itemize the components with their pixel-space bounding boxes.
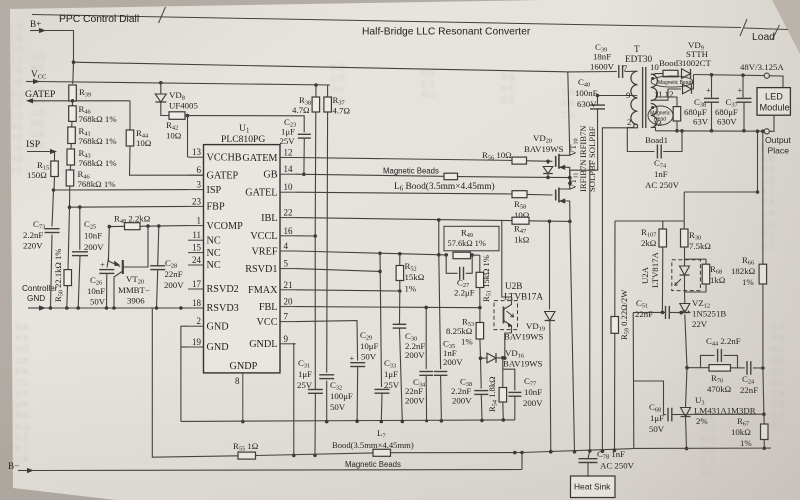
node R42 right [186,114,190,118]
node snubber rail [675,129,679,133]
wire divider to R67 [763,368,764,414]
node R59 rail [613,449,617,453]
resistor R38 [312,97,320,112]
wire C25 lower [78,256,80,308]
wire ref line [672,413,764,415]
wire IBL line [296,218,513,221]
node C73 rail [49,306,53,310]
resistor R49 label box [444,226,499,251]
resistor R55 [238,452,256,459]
resistor R51 [479,255,481,272]
capacitor C33 [375,388,390,390]
node VT20 collector rail [112,306,116,310]
wire C40 upper [597,96,599,105]
node GATEP/R39 [71,99,75,103]
capacitor C25 [72,251,88,253]
node C74 rail [680,129,684,133]
node VT11 source IBL [568,220,572,224]
capacitor C29 [350,362,365,364]
wire pin12 to VD9 lower [651,89,681,100]
wire bottom-right rail [634,447,771,449]
wire B+ to rail corner [43,31,74,63]
wire B- line [30,470,522,471]
inductor L7 [373,449,391,456]
inductor Bood3 [663,70,678,77]
capacitor C24 [746,361,748,375]
node B+ rail junction [72,60,76,64]
wire R107/R30 feed line [684,191,757,193]
wire C32 to gnd bus [326,381,328,422]
wire C26 lower [106,274,108,309]
node C30 bus [401,420,405,424]
wire C34 to bus [440,376,443,421]
node VD19 rail [549,450,553,454]
wire R38 upper [315,85,317,97]
wire R50 net upper [68,207,70,269]
wire R70 to C24 [731,367,745,369]
ruler tick load-left [740,19,747,36]
transistor VT20 emitter [109,258,121,267]
resistor R48 [125,223,141,230]
node R49 left [444,253,448,257]
capacitor C73 [45,228,60,230]
resistor R70 [687,367,709,369]
transformer T core [642,67,644,128]
wire R52 upper [399,254,401,266]
resistor R56 [512,157,527,164]
capacitor C32 [319,374,334,376]
wire GNDL drop [294,344,296,456]
capacitor C31 [308,389,323,391]
wire FBP line [70,205,189,208]
node RSVD1 C33 [378,270,382,274]
wire Vcc line [26,81,37,83]
wire gnd bus [181,420,515,422]
winding polarity dot upper [651,77,654,80]
wire C31 to R55 line [314,393,316,455]
wire VT10 source to node [569,172,571,184]
wire ISP corner to R15 [54,152,56,162]
IC U1 PLC810PG body [204,145,281,373]
wire output+ to LED module [769,76,783,88]
zener VZ12 [680,304,690,313]
node C37 out [741,73,745,77]
wire C38 sense to bus [480,395,483,421]
capacitor C38 output [711,75,713,98]
wire GATEL line [296,192,513,194]
wire Vcc end to R37 [328,85,330,97]
wire VD8 to R42 [161,102,169,116]
capacitor C27 loop [446,255,457,273]
node VD19 net rail [549,450,553,454]
wire VD9 join [692,75,694,90]
wire snubber to out- rail [676,121,678,131]
node C34 bus [440,419,444,423]
node ref line right [762,412,766,416]
capacitor C37 output [742,75,744,98]
wire stack to FBP [69,186,71,207]
oval magnetic beads annotation [651,76,693,87]
wire C29 to bus [356,367,359,422]
node IBL sense tap [437,218,441,222]
node C26 rail [105,306,109,310]
wire fb tap2 to R66 [762,131,764,264]
resistor R47 [512,217,529,224]
node VCOMP left [108,225,112,229]
wire VT11 drain [569,184,571,186]
wire R59 to rail [614,333,616,450]
node VREF IBL-drop tap [437,253,441,257]
wire pin2 return [602,125,637,452]
wire FBL line [296,307,481,308]
diode VD9 upper [682,69,691,79]
transistor VT20 base lead [123,226,148,267]
node C33 bus [380,420,384,424]
wire controller gnd rail [28,307,43,309]
wire R107 bottom [661,247,663,312]
resistor R53 [479,308,481,323]
node R49 right [470,253,474,257]
node GNDP bus [241,420,245,424]
wire R41-R43 [70,144,72,150]
node VD20 gate [546,160,550,164]
wire C28 lower [157,270,158,308]
wire R52 lower [399,281,401,292]
diode VD8 [155,94,166,102]
wire ISP arrow [27,151,54,153]
wire C51 left rail [632,313,635,449]
node C38 bus [480,419,484,423]
wire R46a-R41 [71,121,73,127]
capacitor C74 [656,145,658,159]
section ruler line [32,15,741,28]
oval magnetic head annotation [648,106,673,125]
wire C78 net upper [589,160,591,451]
capacitor C23 [298,133,311,135]
node C38 out [710,73,714,77]
node VD16 left [479,356,483,360]
wire rail to fb area [522,449,634,453]
transformer secondary winding upper [651,74,658,100]
ruler tick left [159,7,166,23]
resistor R41 [68,127,76,144]
capacitor C40 [590,104,605,106]
wire C35 to bus [425,376,427,421]
transformer secondary winding lower [651,104,657,128]
node C77 end [513,451,517,455]
node VCOMP base [146,224,150,228]
wire IBL drop [438,220,440,255]
resistor R107 [662,221,664,229]
resistor R39 [69,85,77,101]
wire VCCL stub [296,235,316,237]
wire FMAX line [296,290,400,291]
wire C26 emitter drop [108,227,111,258]
wire VD16 to R54 node [496,357,503,359]
wire feed drop [683,192,685,221]
wire C25 upper [79,207,81,250]
wire U2B collector up [511,297,513,301]
wire VREF line [296,251,447,255]
wire pin10 to Bood3 [651,73,663,76]
wire R43-R46b [69,165,71,170]
wire C35 drop [425,307,427,369]
node VD19 top IBL [548,220,552,224]
resistor R52 [396,266,404,281]
node pin2 rail [601,449,605,453]
node Vcc VD8 [159,81,163,85]
capacitor C34 [439,255,441,369]
wire pin13 down [651,128,656,131]
resistor R50 [64,270,72,286]
wire R66 to divider node [762,284,764,368]
resistor R54 [502,358,504,388]
capacitor C44 loop [701,355,715,367]
wire GATEP line [33,100,130,102]
wire C30 drop [399,291,401,324]
wire C33 to bus [380,393,383,421]
node out- fb taps [756,129,760,133]
resistor R43 [67,149,75,165]
wire GATEM line [296,158,513,161]
node VT11 net rail [573,450,577,454]
wire C74 left [627,128,654,152]
wire C23 to GB line [303,138,305,174]
wire C40 lower to switch node [570,109,598,170]
heat sink box [571,476,616,498]
wire GATEP arrow [29,100,36,102]
wire VD8 upper [160,83,162,94]
wire C74 right [663,131,682,152]
ruler load segment [744,28,788,30]
node C28 rail [155,306,159,310]
resistor R15 [51,161,59,177]
wire U2B emitter down [511,330,513,333]
node VCCL R38 [313,234,317,238]
wire R107/R30 top line [615,220,684,222]
node VCOMP C28 [157,224,161,228]
wire VREF line right [472,254,480,256]
wire R50 to rail [66,286,69,308]
wire B- riser [521,453,523,470]
terminal output- circle [764,129,769,134]
wire GB line [296,174,445,176]
node C31 R55-line [313,454,317,458]
node R54 bus [502,418,506,422]
wire R55 line mid [256,453,374,456]
node VREF C33 tap [378,252,382,256]
wire C78 to heat sink [587,463,589,476]
node U3 rail [685,447,689,451]
resistor R44 [126,130,134,146]
inductor magnetic beads (GB line) [444,173,458,180]
node GNDL R55-line [292,454,296,458]
node FBL R53 [478,306,482,310]
transistor VT10 symbol [555,156,557,167]
resistor R66 [759,264,767,284]
node FMAX R52 [398,289,402,293]
capacitor C26 [99,269,114,271]
resistor snubber (11-12 tap) [657,97,677,107]
capacitor C77 loop [503,369,515,390]
wire VT11 source down [569,206,571,221]
node C29 bus [355,419,359,423]
capacitor C35 [419,371,433,373]
wire R47 to VT11 source node [529,220,570,223]
wire R38 down to VCCL [314,112,317,236]
resistor R42 [169,112,185,120]
resistor R59 line upper [614,221,616,317]
node ISP/C73 [52,188,56,192]
resistor R46 (b) [66,170,74,186]
node C40 rail [596,94,600,98]
wire C26 upper [107,258,109,268]
resistor R30 [683,221,685,229]
wire C73 upper [52,190,54,227]
node divider (R66/R67/C24) [761,366,765,370]
capacitor C30 [393,323,407,325]
resistor R58 [512,191,527,198]
node fb tap1 bottom [756,190,760,194]
transformer primary winding [631,71,638,124]
wire R51 to FBL [479,288,481,308]
wire VCC line [296,321,358,361]
wire beads to switch node [458,177,570,178]
wire VCCL to C31 [314,236,316,389]
wire ISP pin3 line [54,189,189,191]
wire B- arrow [18,470,31,472]
node VZ12 C51 [679,311,683,315]
wire C24 to divider [753,367,763,369]
node C23 GB [302,173,306,177]
wire R56 to VT10 gate [527,160,553,163]
resistor R46 (a) [71,101,73,106]
wire LED cathode to VZ12 [684,291,686,304]
wire C68 right [674,414,680,416]
wire RSVD1 line [296,269,381,272]
optocoupler U2A dashed box [672,260,701,291]
diode VD9 lower [683,84,692,94]
node R70 line left [685,366,689,370]
node Vcc R38 [314,83,318,87]
optocoupler U2B transistor [503,307,505,324]
node C25 FBP [78,205,82,209]
ruler tick load-right [773,25,780,39]
resistor R59 [611,317,619,334]
wire R53 to VD16 line [479,339,482,358]
wire C68 left riser [634,381,666,415]
wire pin9 line [598,95,634,97]
node switch node C40 [568,182,572,186]
LED Module box [757,88,790,116]
node C38 out- [710,129,714,133]
node R67 rail [763,446,767,450]
wire R37 down to C32 [326,112,329,373]
wire B+ drop to Vcc/R39 [72,62,75,84]
wire R67 to rail [763,440,765,449]
node FBP tee [68,205,72,209]
node VREF R52 tap [398,252,402,256]
node VD20 GB [546,176,550,180]
wire GND pins vertical [181,326,188,421]
diode VD16 [481,357,487,359]
node switch node GB [568,176,572,180]
node C78 rail [588,449,592,453]
transistor VT20 collector [114,271,123,308]
wire R42 to pin13 [187,116,189,158]
node FBL C35 [424,306,428,310]
wire R44 to pin6 [130,146,204,175]
terminal output+ circle [764,73,769,78]
resistor R44 wire [129,101,131,130]
wire C73 lower [51,235,53,309]
wire output- to LED module [769,115,774,131]
capacitor C78 [588,451,590,458]
transistor VT20 base bar [122,260,124,274]
capacitor C28 [150,265,165,267]
resistor R68 loop [685,259,707,264]
node gnd rail / pins vertical [179,306,183,310]
wire VZ12 down [685,315,687,368]
wire R55/L7 line [152,308,238,457]
node B- riser [520,451,524,455]
node R50 rail [65,306,69,310]
node R54 top [501,356,505,360]
wire C30 to bus [400,328,403,421]
transistor VT11 symbol [555,190,557,201]
LED in U2A [684,247,686,266]
optocoupler U2B dashed box [494,301,518,330]
wire R54 to bus [502,402,505,420]
wire B+ rail [74,62,567,72]
winding polarity dot lower [651,106,654,109]
wire L7 line right [391,452,523,454]
node C25 rail [76,306,80,310]
wire C28 drop [158,226,159,266]
wire VT10 drain to B+ rail [568,72,570,150]
node U2B emitter [503,356,507,360]
node C37 out- [742,129,746,133]
capacitor C38 sense [480,358,483,388]
wire VCOMP line [109,226,188,227]
resistor R49 body [453,252,471,259]
node C32 bus [325,420,329,424]
wire R58 to VT11 gate [527,193,553,196]
wire C33 drop [380,253,382,387]
node C35 bus [425,419,428,422]
wire fb tap1 [757,131,759,192]
wire output+ rail [694,75,765,76]
wire out- rail [656,130,765,132]
wire B+ arrow [30,30,43,32]
wire R15 to ISP node [53,177,56,191]
wire VT11 source net to rail [570,221,575,451]
resistor R67 [763,414,765,424]
wire R42 node to C23 [188,116,305,133]
resistor R37 [324,97,332,112]
node C51 R107 [661,311,665,315]
